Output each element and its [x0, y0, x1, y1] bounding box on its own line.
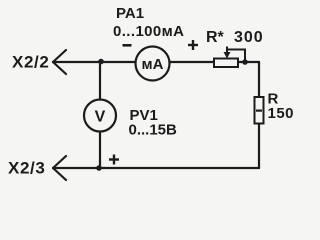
- svg-text:X2/2: X2/2: [12, 53, 49, 72]
- wire right vertical: [258, 62, 260, 168]
- node junction bottom (voltmeter tap): [96, 165, 102, 171]
- rheostat R* body: [214, 59, 238, 68]
- wire voltmeter branch vertical: [99, 62, 101, 168]
- terminal arrow X2/3: [53, 156, 66, 180]
- wire top horizontal: [53, 61, 259, 63]
- node junction rheostat wiper: [242, 59, 248, 65]
- svg-text:X2/3: X2/3: [8, 159, 45, 178]
- node junction top (voltmeter tap): [98, 59, 104, 65]
- rheostat wiper arrow: [224, 47, 246, 62]
- resistor R body: [255, 97, 264, 124]
- voltmeter PV1 circle: [84, 100, 116, 132]
- svg-text:0...100мА: 0...100мА: [113, 23, 184, 40]
- svg-text:мА: мА: [142, 56, 164, 73]
- resistor R middle tick: [256, 110, 262, 112]
- polarity plus at ammeter: [188, 40, 198, 50]
- svg-text:PA1: PA1: [116, 5, 144, 22]
- terminal arrow X2/2: [53, 50, 66, 74]
- svg-text:R*: R*: [206, 29, 225, 46]
- wire bottom horizontal: [53, 167, 259, 169]
- polarity minus at ammeter: [123, 44, 132, 47]
- ammeter PA1 circle: [136, 47, 170, 81]
- polarity plus at bottom wire: [109, 155, 119, 165]
- svg-text:150: 150: [268, 105, 295, 122]
- svg-text:0...15В: 0...15В: [129, 122, 178, 139]
- svg-text:V: V: [95, 109, 106, 126]
- svg-text:300: 300: [234, 29, 264, 46]
